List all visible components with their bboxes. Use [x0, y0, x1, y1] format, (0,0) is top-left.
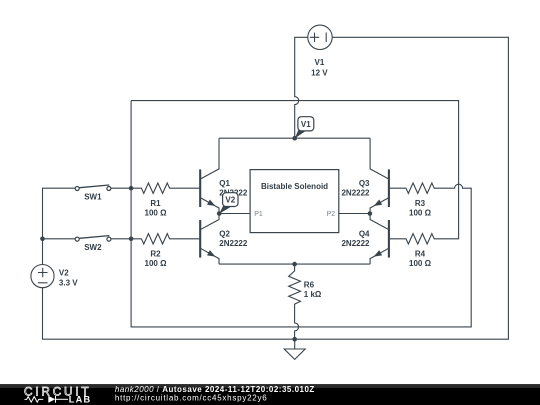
svg-text:Q2: Q2 — [219, 230, 230, 239]
svg-text:R4: R4 — [415, 249, 426, 258]
svg-text:SW1: SW1 — [84, 192, 102, 201]
wire V1 left lead and drop with hop over top rail — [295, 37, 308, 138]
wire SW2 output to junction — [111, 238, 131, 240]
resistor R2 — [131, 234, 200, 244]
switch SW2 — [75, 236, 111, 242]
transistor Q3 — [370, 138, 389, 213]
wire P1 lead — [219, 213, 250, 215]
svg-text:Bistable Solenoid: Bistable Solenoid — [261, 182, 328, 191]
wire SW1 output to junction — [111, 187, 131, 189]
svg-text:Q1: Q1 — [219, 179, 230, 188]
svg-text:2N2222: 2N2222 — [341, 188, 370, 197]
svg-text:LAB: LAB — [69, 395, 91, 405]
svg-text:V2: V2 — [225, 196, 235, 205]
wire emitter rail — [219, 263, 370, 265]
resistor R6 — [289, 264, 301, 339]
svg-text:http://circuitlab.com/cc45xhsp: http://circuitlab.com/cc45xhspy22y6 — [115, 393, 268, 402]
svg-text:3.3 V: 3.3 V — [59, 279, 78, 288]
svg-text:100 Ω: 100 Ω — [409, 209, 432, 218]
transistor Q1 — [200, 138, 219, 213]
footer bar — [0, 384, 540, 405]
node flag V2 — [219, 193, 238, 214]
resistor R4 — [389, 234, 434, 244]
node V2 SW2 branch junction — [40, 237, 45, 242]
svg-text:100 Ω: 100 Ω — [145, 209, 168, 218]
svg-text:Q3: Q3 — [359, 179, 370, 188]
svg-text:V1: V1 — [315, 58, 325, 67]
wire V1 right lead, outer right side, ground rail to V2 — [43, 37, 509, 339]
svg-text:2N2222: 2N2222 — [341, 239, 370, 248]
node R2 left junction — [129, 237, 134, 242]
svg-text:12 V: 12 V — [311, 69, 328, 78]
ground — [284, 339, 305, 359]
svg-text:2N2222: 2N2222 — [219, 239, 248, 248]
node flag V1 — [295, 117, 314, 139]
resistor R1 — [131, 183, 200, 193]
node V1 net junction — [292, 136, 297, 141]
wire collector rail — [219, 137, 370, 139]
svg-text:100 Ω: 100 Ω — [409, 259, 432, 268]
svg-text:R6: R6 — [304, 281, 315, 290]
wire left vertical, inner bottom rail, R3 drop with hop — [131, 101, 471, 327]
svg-text:100 Ω: 100 Ω — [145, 259, 168, 268]
svg-text:V2: V2 — [59, 269, 69, 278]
svg-text:1 kΩ: 1 kΩ — [304, 290, 322, 299]
transistor Q4 — [370, 214, 389, 265]
wire V2 positive lead up to SW1 row — [43, 188, 76, 264]
wire P2 lead — [339, 213, 370, 215]
node R6 top junction — [292, 262, 297, 267]
logo zigzag diode art — [25, 396, 69, 403]
svg-text:R1: R1 — [150, 199, 161, 208]
svg-text:R3: R3 — [415, 199, 426, 208]
svg-text:V1: V1 — [301, 120, 311, 129]
svg-text:Q4: Q4 — [359, 230, 370, 239]
switch SW1 — [75, 185, 111, 191]
bistable solenoid box — [250, 170, 339, 233]
wire top rail with right drop to R4 row — [131, 101, 459, 239]
resistor R3 — [389, 183, 434, 193]
transistor Q2 — [200, 214, 219, 265]
node Q1 emitter / Q2 collector / P1 — [217, 211, 222, 216]
node R1 left junction — [129, 186, 134, 191]
voltage source V1 — [308, 25, 332, 49]
svg-text:P2: P2 — [327, 211, 336, 218]
wire SW2 branch — [43, 238, 76, 240]
svg-text:SW2: SW2 — [84, 243, 102, 252]
svg-text:P1: P1 — [254, 211, 263, 218]
node ground junction — [292, 337, 297, 342]
voltage source V2 — [31, 265, 54, 288]
node Q3 emitter / Q4 collector / P2 — [368, 211, 373, 216]
svg-text:R2: R2 — [150, 249, 161, 258]
